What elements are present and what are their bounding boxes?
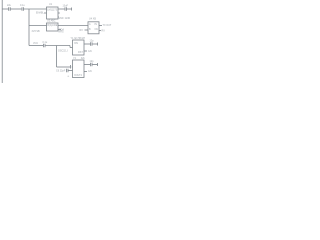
- wire U4 right pin y30.5 stub: [99, 30, 101, 32]
- svg-text:GND: GND: [58, 17, 64, 20]
- svg-text:10uF: 10uF: [63, 5, 69, 8]
- wire U4 left pin y30: [85, 29, 89, 31]
- wire U3 right pin y44 to C5: [84, 43, 90, 45]
- svg-text:G: G: [68, 76, 70, 78]
- capacitor C2: [22, 7, 24, 11]
- wire U4 right pin y25.5 stub: [99, 25, 102, 27]
- svg-text:0.1u: 0.1u: [43, 41, 48, 44]
- svg-text:GND: GND: [65, 17, 71, 20]
- capacitor C5: [91, 42, 93, 46]
- node terminal tick right C: [97, 43, 99, 46]
- wire U2 right pin to U4: [58, 25, 88, 27]
- IC U1 regulator box: [47, 7, 59, 19]
- svg-text:R(A)CDE: R(A)CDE: [47, 24, 57, 27]
- capacitor C1: [9, 7, 11, 11]
- wire vertical bus at x29: [28, 9, 30, 46]
- IC U4 box: [88, 22, 99, 34]
- svg-text:OU: OU: [95, 28, 99, 31]
- svg-text:3V3 SB: 3V3 SB: [32, 30, 41, 33]
- svg-text:RST: RST: [78, 51, 83, 54]
- svg-text:NRS: NRS: [59, 30, 64, 33]
- svg-text:LM1117S: LM1117S: [47, 9, 57, 12]
- node terminal tick top: [71, 8, 73, 11]
- node terminal tick right D: [97, 63, 99, 66]
- sheet border left edge: [1, 0, 3, 83]
- IC U5 box: [73, 60, 85, 78]
- wire U5 right pin y71.5 stub: [84, 71, 87, 73]
- svg-text:VCC: VCC: [33, 42, 38, 45]
- svg-text:22u: 22u: [7, 4, 12, 7]
- svg-text:12p: 12p: [90, 40, 95, 43]
- wire U5 right pin y64.5 to C7: [84, 64, 90, 66]
- wire C6 to U5 left pin y70.5: [68, 70, 73, 72]
- wire C5 to terminal: [92, 43, 98, 45]
- svg-text:OSC32_I: OSC32_I: [58, 49, 68, 52]
- svg-text:0.1u: 0.1u: [20, 4, 25, 7]
- svg-text:Y1 32.768 kH: Y1 32.768 kH: [71, 37, 86, 40]
- svg-text:IN: IN: [95, 23, 98, 26]
- svg-text:GN: GN: [88, 50, 92, 53]
- svg-text:XIN: XIN: [74, 42, 78, 45]
- wire bus to U2 left pin: [29, 25, 47, 27]
- wire C3 to terminal: [67, 8, 72, 10]
- svg-text:RX: RX: [80, 29, 84, 32]
- capacitor C3: [65, 7, 67, 11]
- wire C7 to terminal: [92, 64, 98, 66]
- wire U2 right pin y29.5 stub: [58, 29, 61, 31]
- wire U1 right pin y17 nub: [58, 16, 59, 18]
- wire C1 to C2: [10, 8, 22, 10]
- wire top net from border to C1: [2, 8, 8, 10]
- wire U3 right pin y51 stub: [84, 50, 87, 52]
- wire stub into U3 pin y47.5: [70, 47, 73, 49]
- svg-text:ENABL: ENABL: [36, 11, 45, 14]
- wire U1 right pin y9 to C3: [58, 8, 65, 10]
- svg-text:U2 ABC: U2 ABC: [47, 19, 56, 22]
- svg-text:C6 22pF: C6 22pF: [56, 70, 66, 73]
- IC U2 box: [47, 23, 59, 31]
- svg-text:TX OUT: TX OUT: [103, 24, 112, 27]
- wire bend down at x70: [69, 46, 71, 48]
- wire U1 left pin y13: [44, 12, 47, 14]
- svg-text:12p: 12p: [90, 60, 95, 63]
- svg-text:GN: GN: [88, 70, 92, 73]
- capacitor C7: [91, 63, 93, 67]
- wire C4 to bend: [45, 45, 70, 47]
- svg-text:U4 XB: U4 XB: [89, 18, 96, 21]
- capacitor C4: [44, 44, 46, 48]
- svg-text:XOUT2: XOUT2: [74, 74, 83, 77]
- wire C2 to U1 left pin: [24, 8, 47, 10]
- svg-text:RX: RX: [102, 29, 106, 32]
- wire bus corner to C4: [29, 45, 43, 47]
- IC U3 box: [73, 40, 85, 55]
- wire vertical drop at x56.5: [56, 46, 58, 68]
- wire corner to terminal y67: [57, 66, 71, 68]
- node terminal tick at x70.5: [70, 65, 72, 69]
- wire nub U5 pin y67: [71, 66, 74, 68]
- wire U1 right pin y13 stub: [58, 12, 60, 14]
- capacitor C6: [67, 69, 69, 73]
